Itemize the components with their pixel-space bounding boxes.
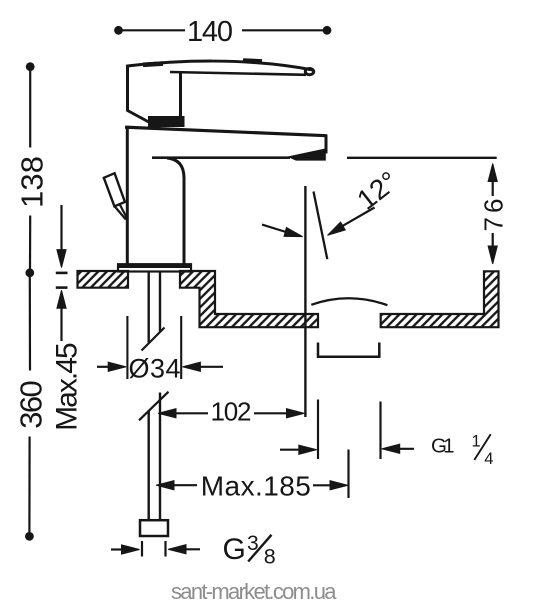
dimension Max.45: lower tick bbox=[56, 286, 68, 289]
dimension 138 left: top dot bbox=[26, 62, 35, 71]
svg-text:12°: 12° bbox=[351, 165, 403, 215]
faucet spout: right end edge bbox=[325, 135, 328, 154]
dimension Max.45: lower arrow shaft bbox=[60, 307, 62, 342]
faucet handle: blade top thick mark 1 bbox=[143, 64, 163, 65]
12deg left arc arrow tail bbox=[262, 225, 286, 232]
dimension Max.45: lower arrowhead bbox=[57, 290, 66, 308]
dimension 102: right arrowhead bbox=[287, 409, 305, 418]
faucet handle: base right edge bbox=[179, 71, 182, 122]
dimension G 3/8: right arrowhead bbox=[168, 545, 186, 554]
dimension O34: right arrow tail bbox=[198, 366, 223, 368]
faucet handle: base chamfer bbox=[128, 111, 152, 124]
12deg right arc arrow tail bbox=[343, 208, 375, 226]
dimension 138: upper line segment bbox=[29, 71, 31, 148]
dimension G1 1/4: right arrow tail bbox=[397, 448, 414, 450]
dimension G1 1/4: left extension line bbox=[317, 400, 319, 460]
12deg left arrowhead bbox=[284, 227, 304, 241]
faucet body: left edge bbox=[126, 126, 129, 265]
dimension G1 1/4: left arrowhead bbox=[299, 445, 317, 454]
dimension Max.45: upper tick bbox=[56, 272, 68, 275]
faucet base flange bbox=[118, 264, 191, 271]
faucet handle: blade top thick mark 2 bbox=[243, 58, 262, 63]
dimension G1 1/4: left arrow tail bbox=[280, 449, 301, 451]
dimension 360: upper line segment bbox=[29, 277, 31, 371]
dimension 138: lower line segment bbox=[29, 216, 31, 270]
dimension O34: left extension line bbox=[126, 316, 128, 379]
spout height reference line bbox=[347, 157, 497, 159]
faucet body: right edge with curve bbox=[167, 158, 184, 265]
dimension 76: lower shaft bbox=[492, 233, 494, 247]
faucet handle: dark bar under handle bbox=[148, 116, 185, 127]
countertop left slab (hatched) bbox=[78, 271, 129, 288]
supply pipe upper segment left line bbox=[147, 272, 149, 343]
dimension 140 top: right dot bbox=[323, 26, 332, 35]
dimension O34: left arrow tail bbox=[97, 366, 111, 368]
faucet handle: base left edge bbox=[126, 65, 129, 112]
pipe break slash 2 bbox=[139, 392, 169, 421]
dimension O34: right extension line bbox=[180, 316, 182, 379]
dimension Max.185: right arrowhead bbox=[330, 481, 348, 490]
svg-text:Max.185: Max.185 bbox=[201, 471, 311, 502]
drain pull lever tail line 2 bbox=[120, 205, 127, 218]
svg-text:4: 4 bbox=[484, 450, 493, 468]
supply pipe lower segment left line bbox=[147, 411, 149, 520]
svg-text:G1: G1 bbox=[431, 435, 455, 458]
dimension Max.45: upper arrow shaft bbox=[60, 205, 62, 250]
dimension G 3/8: left tick bbox=[141, 541, 143, 557]
supply pipe end nut bbox=[140, 520, 168, 536]
svg-text:1: 1 bbox=[472, 432, 481, 450]
dimension 140: line left segment bbox=[122, 29, 185, 31]
svg-text:138: 138 bbox=[14, 156, 49, 208]
faucet base flange thick top bbox=[117, 264, 192, 268]
dimension 140: line right segment bbox=[242, 29, 323, 31]
faucet handle: blade top edge bbox=[128, 61, 314, 70]
svg-text:Max.45: Max.45 bbox=[50, 342, 83, 431]
pipe break slash 1 bbox=[142, 328, 165, 351]
drain pull lever bbox=[104, 173, 125, 206]
countertop slab right of faucet + step + basin floor left (hatched) bbox=[180, 271, 318, 327]
dimension O34: right arrowhead bbox=[182, 362, 200, 371]
dimension 102: right tail bbox=[254, 412, 289, 414]
dimension G1 1/4: right arrowhead bbox=[382, 444, 400, 453]
svg-text:sant-market.com.ua: sant-market.com.ua bbox=[171, 579, 337, 604]
faucet spout: aerator wedge bbox=[287, 148, 326, 160]
svg-text:102: 102 bbox=[211, 397, 252, 427]
dimension G 3/8: right tick bbox=[164, 541, 166, 557]
svg-text:8: 8 bbox=[264, 545, 276, 569]
supply pipe lower segment right line bbox=[159, 393, 161, 521]
dimension G 3/8: left arrowhead bbox=[122, 545, 140, 554]
faucet body: top edge sloping to spout bbox=[125, 127, 327, 136]
12 degree slanted line bbox=[314, 192, 328, 260]
faucet handle: blade bottom edge bbox=[170, 72, 306, 75]
svg-text:140: 140 bbox=[187, 16, 233, 48]
svg-text:76: 76 bbox=[478, 199, 508, 232]
dimension 138: middle dot bbox=[25, 268, 34, 277]
dimension 360 left: bottom dot bbox=[25, 532, 34, 541]
dimension G 3/8: right arrow tail bbox=[183, 548, 200, 550]
dimension G 3/8: left arrow tail bbox=[111, 548, 123, 550]
dimension Max.185: left arrowhead bbox=[156, 481, 174, 490]
dimension Max.45: upper arrowhead bbox=[57, 250, 66, 268]
dimension 76: upper arrowhead bbox=[488, 164, 497, 182]
dimension O34: left arrowhead bbox=[108, 362, 126, 371]
label G1 1/4 fraction slash bbox=[474, 434, 490, 460]
dimension 140 top: left dot bbox=[114, 26, 123, 35]
dimension 76: lower arrowhead bbox=[488, 246, 497, 264]
dimension 102: left tail bbox=[175, 412, 208, 414]
dimension Max.185: right tick bbox=[347, 450, 349, 499]
drain tailpiece U bracket bbox=[318, 343, 379, 357]
supply pipe upper segment right line bbox=[159, 272, 161, 332]
drain pull lever tail line 1 bbox=[115, 207, 126, 220]
dimension G1 1/4: right extension line bbox=[379, 402, 381, 460]
faucet handle: blade tip bbox=[305, 69, 313, 75]
12deg right arrowhead bbox=[325, 222, 345, 239]
svg-text:Ø34: Ø34 bbox=[129, 353, 181, 383]
dimension Max.185: left tail bbox=[172, 484, 197, 486]
dimension 102: left arrowhead bbox=[158, 409, 176, 418]
water surface arc in basin bbox=[311, 298, 387, 305]
svg-text:360: 360 bbox=[13, 380, 48, 429]
label G 3/8 fraction slash bbox=[248, 535, 271, 562]
svg-text:G: G bbox=[223, 533, 246, 566]
dimension 76: upper shaft bbox=[492, 180, 494, 196]
faucet spout: underside line bbox=[152, 156, 290, 159]
dimension 360: lower line segment bbox=[28, 437, 30, 533]
dimension Max.185: right tail bbox=[313, 484, 333, 486]
basin floor right + right rim block (hatched) bbox=[381, 271, 499, 327]
spout stream centerline bbox=[304, 186, 306, 417]
